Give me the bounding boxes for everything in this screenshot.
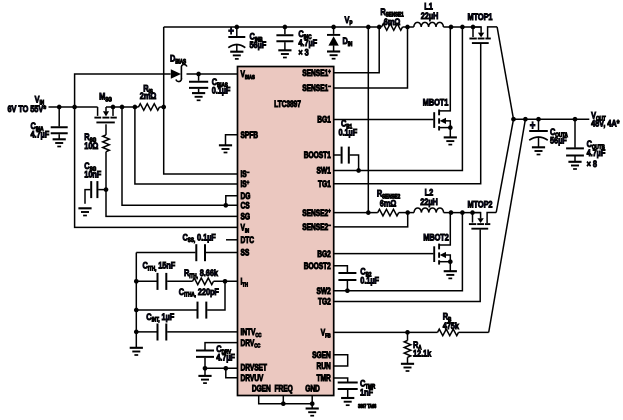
wire VFB — [334, 330, 489, 335]
capacitor CITHA — [136, 281, 225, 318]
wire SPFB to ground — [226, 135, 238, 145]
U1 pin label DRVCC — [241, 338, 261, 350]
svg-text:+: + — [530, 119, 536, 132]
wire SGEN RUN loop — [334, 355, 348, 366]
U1 pin label BOOST1 — [304, 150, 331, 160]
U1 pin label DRVSET — [241, 363, 268, 373]
svg-text:MBOT2: MBOT2 — [423, 232, 449, 243]
svg-text:SG: SG — [241, 212, 250, 222]
svg-text:CITH, 15nF: CITH, 15nF — [143, 260, 176, 273]
svg-text:× 3: × 3 — [298, 47, 309, 58]
capacitor CB1 — [334, 118, 361, 173]
U1 pin label DTC — [241, 235, 255, 245]
svg-text:× 8: × 8 — [587, 158, 598, 169]
wire DRVCC — [205, 343, 238, 350]
transistor MTOP2 — [468, 199, 497, 229]
svg-text:CSS, 0.1µF: CSS, 0.1µF — [183, 231, 216, 244]
svg-text:FREQ: FREQ — [275, 384, 293, 394]
svg-text:22µH: 22µH — [420, 196, 438, 207]
ground (CTMR) — [341, 398, 354, 405]
node VP label — [345, 14, 353, 27]
wire DRVSET DRVUV tie — [205, 366, 238, 378]
ground (GND pin) — [306, 404, 319, 416]
svg-text:CINT, 1µF: CINT, 1µF — [146, 311, 174, 324]
U1 pin label IS- — [241, 169, 250, 179]
ground (RA) — [401, 364, 414, 371]
U1 pin label TG1 — [318, 179, 331, 189]
ground (CINA) — [53, 139, 66, 146]
resistor RSENSE2 — [377, 188, 400, 216]
U1 pin label SGEN — [312, 350, 331, 360]
U1 pin label IS+ — [241, 179, 250, 189]
diode DIN — [327, 27, 352, 51]
wire TG1 — [334, 44, 481, 184]
U1 pin label BG2 — [317, 249, 331, 259]
svg-text:56µF: 56µF — [250, 39, 267, 50]
ground (COUTB) — [568, 162, 581, 169]
svg-text:SPFB: SPFB — [241, 130, 259, 140]
note 3897 TA03 — [358, 404, 377, 410]
wire SW1 — [334, 27, 463, 171]
svg-text:12.1k: 12.1k — [413, 348, 431, 359]
wire VIN pin loop — [75, 107, 238, 227]
U1 pin label TMR — [317, 373, 332, 383]
wire CS — [122, 107, 238, 205]
resistor RSENSE1 — [380, 6, 403, 30]
svg-text:SS: SS — [241, 248, 250, 258]
capacitor COUTB — [566, 119, 605, 169]
svg-text:MTOP1: MTOP1 — [468, 11, 493, 22]
svg-text:RITH, 8.66k: RITH, 8.66k — [184, 267, 218, 280]
U1 pin label SENSE2+ — [302, 208, 330, 218]
wire DTC stub — [226, 239, 238, 241]
U1 pin label VIN — [241, 223, 250, 235]
svg-text:DBIAS: DBIAS — [170, 53, 187, 66]
svg-text:SENSE1+: SENSE1+ — [302, 68, 330, 78]
svg-text:10nF: 10nF — [84, 169, 101, 180]
capacitor CSG — [84, 160, 106, 204]
ground (COUTA) — [532, 147, 545, 154]
wire IS- sense — [164, 107, 238, 174]
ground (DIN) — [327, 52, 340, 59]
svg-text:DIN: DIN — [343, 35, 353, 48]
svg-text:DGEN: DGEN — [252, 384, 271, 394]
resistor RSG — [84, 124, 109, 192]
U1 pin label VBIAS — [241, 69, 256, 81]
svg-text:4.7µF: 4.7µF — [587, 147, 606, 158]
capacitor COUTA — [529, 119, 568, 147]
wire DG tie — [223, 196, 237, 208]
svg-text:6mΩ: 6mΩ — [380, 198, 397, 209]
ground (CINC) — [278, 50, 291, 57]
svg-text:22µH: 22µH — [421, 10, 439, 21]
wire VOUT rail — [511, 117, 589, 122]
transistor MTOP1 — [468, 11, 498, 43]
wire VBIAS row — [75, 72, 238, 107]
ground (CDRV) — [198, 368, 211, 383]
svg-text:3897 TA03: 3897 TA03 — [358, 404, 377, 410]
svg-text:4.7µF: 4.7µF — [216, 352, 235, 363]
svg-text:MSG: MSG — [99, 91, 112, 104]
U1 pin label BOOST2 — [304, 261, 331, 271]
svg-text:SGEN: SGEN — [312, 350, 331, 360]
svg-text:DRVSET: DRVSET — [241, 363, 268, 373]
svg-text:DTC: DTC — [241, 235, 255, 245]
transistor MBOT1 — [423, 27, 453, 137]
capacitor CSS — [136, 231, 237, 261]
node VIN input label — [7, 94, 46, 115]
svg-text:LTC3897: LTC3897 — [274, 99, 301, 109]
wire SENSE2- — [334, 213, 408, 227]
wire SW2 — [334, 213, 463, 291]
wire compensation left rail — [134, 253, 139, 348]
svg-text:RUN: RUN — [317, 361, 332, 371]
svg-text:TG1: TG1 — [318, 179, 331, 189]
svg-text:56µF: 56µF — [550, 135, 567, 146]
svg-text:MTOP2: MTOP2 — [468, 199, 493, 210]
U1 pin label TG2 — [318, 297, 331, 307]
node VOUT label — [591, 110, 620, 129]
capacitor CINT — [136, 311, 237, 341]
resistor RIS — [139, 83, 160, 111]
U1 pin label INTVCC — [241, 327, 262, 339]
U1 pin label SW1 — [317, 166, 332, 176]
resistor RA — [404, 332, 431, 363]
capacitor CB2 — [334, 266, 379, 293]
ground (CSG) — [78, 208, 91, 215]
ground (CBIAS) — [192, 93, 205, 100]
ground (CINB) — [230, 52, 243, 59]
svg-text:BG2: BG2 — [317, 249, 331, 259]
svg-text:TG2: TG2 — [318, 297, 331, 307]
wire BG2 — [334, 253, 434, 255]
wire TG2 — [334, 230, 481, 302]
wire IS+ sense — [135, 107, 238, 184]
U1 pin label SENSE2- — [302, 222, 330, 232]
wire MTOP1 drain diagonal — [497, 27, 513, 119]
U1 pin label SS — [241, 248, 250, 258]
wire VIN rail — [49, 105, 167, 110]
svg-text:SW2: SW2 — [317, 286, 332, 296]
svg-text:6mΩ: 6mΩ — [384, 16, 401, 27]
capacitor CBIAS — [189, 74, 230, 96]
svg-text:6V TO 55V*: 6V TO 55V* — [7, 103, 46, 114]
U1 pin label SG — [241, 212, 250, 222]
wire MTOP2 drain diagonal — [496, 119, 513, 212]
svg-text:DRVUV: DRVUV — [241, 373, 264, 383]
svg-text:CS: CS — [241, 201, 250, 211]
wire bottom GND bus — [259, 396, 315, 407]
svg-text:BOOST1: BOOST1 — [304, 150, 331, 160]
wire SG — [106, 190, 238, 217]
U1 pin label DG — [241, 191, 251, 201]
wire VP to channel2 riser — [367, 27, 369, 213]
IC U1 part number label — [274, 99, 301, 109]
capacitor CINC — [276, 27, 317, 58]
svg-text:SENSE1−: SENSE1− — [302, 83, 330, 93]
ground (SPFB) — [219, 145, 232, 152]
U1 pin label SENSE1- — [302, 83, 330, 93]
U1 pin label GND — [305, 384, 320, 394]
svg-text:0.1µF: 0.1µF — [360, 275, 379, 286]
ground (MBOT1) — [444, 137, 457, 144]
inductor L2 — [414, 187, 444, 213]
svg-text:475k: 475k — [443, 320, 459, 331]
U1 pin label VFB — [321, 328, 331, 340]
capacitor CTMR — [338, 378, 376, 398]
U1 pin label CS — [241, 201, 250, 211]
wire VP rail — [164, 25, 481, 30]
wire BG1 — [334, 119, 434, 121]
wire SENSE2+ rail2 — [334, 210, 481, 215]
svg-text:BG1: BG1 — [317, 115, 331, 125]
U1 pin label DRVUV — [241, 373, 264, 383]
svg-text:0.1µF: 0.1µF — [212, 85, 231, 96]
ground (MBOT2) — [444, 271, 457, 278]
wire RB diagonal to VOUT — [489, 119, 526, 332]
wire TMR — [334, 378, 348, 382]
capacitor CDRV — [196, 343, 235, 371]
U1 pin label SENSE1+ — [302, 68, 330, 78]
svg-text:2mΩ: 2mΩ — [140, 90, 157, 101]
inductor L1 — [414, 1, 444, 27]
wire SENSE1+ — [334, 27, 380, 73]
U1 pin label SW2 — [317, 286, 332, 296]
transistor MBOT2 — [423, 213, 452, 271]
resistor RITH — [184, 267, 238, 285]
resistor RB — [438, 311, 460, 336]
svg-text:MBOT1: MBOT1 — [423, 97, 449, 108]
capacitor CINB — [228, 25, 266, 51]
svg-text:0.1µF: 0.1µF — [339, 127, 358, 138]
U1 pin label BG1 — [317, 115, 331, 125]
svg-text:TMR: TMR — [317, 373, 332, 383]
U1 pin label DGEN — [252, 384, 271, 394]
svg-text:SW1: SW1 — [317, 166, 332, 176]
diode DBIAS — [170, 53, 187, 82]
svg-text:GND: GND — [305, 384, 320, 394]
svg-text:SENSE2−: SENSE2− — [302, 222, 330, 232]
U1 pin label ITH — [241, 277, 249, 289]
IC U1 LTC3897 body — [238, 67, 334, 396]
transistor MSG — [94, 91, 116, 123]
ground (compensation) — [130, 348, 143, 355]
svg-text:10Ω: 10Ω — [84, 140, 98, 151]
U1 pin label SPFB — [241, 130, 259, 140]
svg-text:+: + — [228, 25, 234, 38]
wire SENSE1- — [334, 27, 408, 88]
svg-text:BOOST2: BOOST2 — [304, 261, 331, 271]
capacitor CINA — [31, 107, 68, 140]
U1 pin label FREQ — [275, 384, 293, 394]
capacitor CITH — [136, 260, 192, 290]
svg-text:CITHA, 220pF: CITHA, 220pF — [179, 286, 219, 299]
svg-text:SENSE2+: SENSE2+ — [302, 208, 330, 218]
svg-text:VP: VP — [345, 14, 353, 27]
wire VP riser from RIS node — [163, 27, 165, 107]
U1 pin label RUN — [317, 361, 332, 371]
svg-text:1nF: 1nF — [360, 387, 373, 398]
svg-text:4.7µF: 4.7µF — [31, 129, 50, 140]
svg-text:48V, 4A*: 48V, 4A* — [591, 118, 620, 129]
